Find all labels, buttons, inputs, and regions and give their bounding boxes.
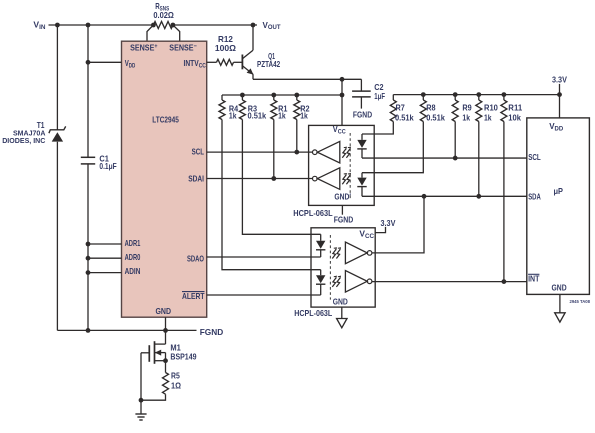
label opto U3 HCPL-063L xyxy=(294,308,332,318)
junction rail R8 xyxy=(421,92,426,97)
opto U3 LED1 xyxy=(316,234,325,257)
svg-text:VOUT: VOUT xyxy=(263,20,281,31)
junction VIN/C1 xyxy=(86,23,91,28)
svg-text:HCPL-063L: HCPL-063L xyxy=(294,308,332,318)
label LTC2945 xyxy=(152,114,179,124)
junction rail R9 xyxy=(453,92,458,97)
opto U2 squiggle1 xyxy=(342,147,350,158)
label R2 xyxy=(300,104,310,114)
resistor R11 xyxy=(501,95,507,122)
label T1 xyxy=(37,120,45,130)
resistor R8 xyxy=(420,95,426,122)
junction rail 3p3 xyxy=(557,92,562,97)
resistor R1 xyxy=(271,95,277,120)
wire SENSE- lead xyxy=(173,25,180,41)
opto U3 GND label xyxy=(333,297,348,307)
wire SDAO xyxy=(207,256,321,258)
opto U2 box xyxy=(309,125,375,205)
resistor R5 xyxy=(163,373,169,395)
svg-text:R7: R7 xyxy=(396,103,406,113)
wire R3 to opto2 anode1 xyxy=(242,120,320,235)
wire T1 branch lower xyxy=(56,142,58,331)
svg-text:R9: R9 xyxy=(462,103,472,113)
junction VDD tap xyxy=(86,60,91,65)
wire VCC column xyxy=(341,79,343,125)
junction INT/R11 xyxy=(502,279,507,284)
svg-text:VIN: VIN xyxy=(33,20,46,31)
wire 3.3V to uP VDD xyxy=(559,84,561,118)
label R11 xyxy=(508,103,522,113)
wire R11 to INT xyxy=(503,122,505,282)
opto U2 squiggle2 xyxy=(342,174,350,185)
opto U2 VCC label xyxy=(333,124,346,135)
wire ADIN xyxy=(86,270,122,275)
resistor R3 xyxy=(239,95,245,120)
ground uP xyxy=(555,313,565,322)
junction rail R11 xyxy=(502,92,507,97)
svg-text:3.3V: 3.3V xyxy=(381,218,396,228)
pin SENSE- xyxy=(169,43,197,53)
wire SENSE+ lead xyxy=(147,25,153,41)
svg-text:ADIN: ADIN xyxy=(125,266,141,276)
svg-text:SDA: SDA xyxy=(528,191,541,201)
label DIODES INC xyxy=(2,136,46,145)
value R11 10k xyxy=(508,113,521,123)
svg-text:1k: 1k xyxy=(278,111,286,121)
junction emitter/VCC column xyxy=(340,77,345,82)
wire C1 column lower xyxy=(87,164,89,331)
junction VOUT/Q1 xyxy=(251,23,256,28)
svg-text:R11: R11 xyxy=(508,103,522,113)
svg-text:ADR1: ADR1 xyxy=(125,238,141,248)
value R7 0.51k xyxy=(395,113,414,123)
uP VDD label xyxy=(549,121,564,132)
wire R1 to SDAI xyxy=(273,120,275,179)
pin ADR0 xyxy=(125,252,141,262)
wire M1 drain lead xyxy=(155,330,166,344)
wire ADR1 xyxy=(86,242,122,247)
svg-text:ADR0: ADR0 xyxy=(125,252,141,262)
transistor M1 BSP149 xyxy=(149,341,165,372)
value 0.02ohm xyxy=(153,10,174,20)
resistor R12 xyxy=(217,59,243,65)
wire R9 to SCL xyxy=(454,122,456,159)
junction SDAI/R1 xyxy=(271,176,276,181)
label opto U2 HCPL-063L xyxy=(293,208,332,218)
junction SCL/R2 xyxy=(294,150,299,155)
wire Q1 emitter rail xyxy=(253,74,361,79)
junction SDA/R10 xyxy=(476,194,481,199)
svg-text:GND: GND xyxy=(156,306,172,316)
value C2 1uF xyxy=(374,91,385,101)
wire R7 to LED1 anode xyxy=(362,122,393,135)
junction gate/gnd xyxy=(139,398,144,403)
pin SDAO xyxy=(187,254,204,264)
label R7 xyxy=(396,103,406,113)
label RSNS xyxy=(155,1,169,12)
opto U3 squiggle1 xyxy=(332,248,340,259)
diode T1 TVS xyxy=(49,126,66,141)
pin GND xyxy=(156,306,172,316)
pin ADR1 xyxy=(125,238,141,248)
label R4 xyxy=(229,104,239,114)
svg-text:LTC2945: LTC2945 xyxy=(152,114,179,124)
wire INTVCC lead xyxy=(207,61,217,63)
svg-text:VDD: VDD xyxy=(549,121,564,132)
svg-text:DIODES, INC: DIODES, INC xyxy=(2,136,46,145)
svg-text:SCL: SCL xyxy=(192,147,204,157)
value R12 100ohm xyxy=(215,43,236,53)
svg-text:1k: 1k xyxy=(300,111,308,121)
capacitor C2 xyxy=(352,79,371,108)
transistor Q1 PZTA42 xyxy=(242,25,253,75)
junction rail R1 xyxy=(271,93,276,98)
junction SDA/opto2out1 xyxy=(422,194,427,199)
label R10 xyxy=(484,103,498,113)
wire R4 to opto2 anode2 xyxy=(222,120,321,270)
svg-text:SDAO: SDAO xyxy=(187,254,204,264)
pin SCL xyxy=(192,147,204,157)
value R3 0.51k xyxy=(248,111,267,121)
svg-text:SCL: SCL xyxy=(528,152,541,162)
label R12 xyxy=(218,34,233,44)
svg-text:VCC: VCC xyxy=(359,229,374,240)
wire SCL xyxy=(207,151,313,153)
svg-text:3.3V: 3.3V xyxy=(552,75,567,85)
pin ALERT xyxy=(182,291,205,301)
uP INT label xyxy=(528,273,539,283)
opto U2 GND label xyxy=(334,192,351,202)
svg-text:GND: GND xyxy=(333,297,348,307)
junction rail R10 xyxy=(476,92,481,97)
svg-text:FGND: FGND xyxy=(353,109,372,119)
pin VDD xyxy=(125,58,136,69)
opto U2 dashed isolation xyxy=(349,133,351,198)
svg-text:0.1μF: 0.1μF xyxy=(99,161,116,171)
node 3.3V top xyxy=(552,75,567,85)
opto U2 buffer1 xyxy=(313,141,340,163)
junction VCC/pullup rail xyxy=(340,93,345,98)
value R9 1k xyxy=(462,113,470,123)
wire gnd stub xyxy=(140,400,142,414)
wire R5 to gnd xyxy=(141,394,166,400)
node VOUT label xyxy=(263,20,281,31)
svg-text:GND: GND xyxy=(552,283,567,293)
uP GND pin xyxy=(559,294,561,312)
label R5 xyxy=(171,371,180,381)
value R5 1ohm xyxy=(171,381,181,391)
junction SCLr/R9 xyxy=(453,156,458,161)
resistor R7 xyxy=(390,95,396,122)
wire M1 gate lead xyxy=(141,353,149,400)
svg-text:1Ω: 1Ω xyxy=(171,381,181,391)
junction GND/FGND rail xyxy=(163,328,168,333)
svg-text:R10: R10 xyxy=(484,103,498,113)
opto U2 LED1 xyxy=(357,134,366,158)
opto U2 buffer2 xyxy=(313,168,340,190)
svg-text:1k: 1k xyxy=(462,113,470,123)
value R4 1k xyxy=(229,111,237,121)
node VIN label xyxy=(33,20,46,31)
resistor R2 xyxy=(294,95,300,120)
svg-text:10k: 10k xyxy=(508,113,521,123)
value R2 1k xyxy=(300,111,308,121)
svg-text:0.51k: 0.51k xyxy=(248,111,267,121)
svg-text:SENSE+: SENSE+ xyxy=(130,43,158,53)
svg-text:PZTA42: PZTA42 xyxy=(257,59,280,69)
label R3 xyxy=(248,104,258,114)
opto U3 dashed isolation xyxy=(329,235,331,300)
svg-text:BSP149: BSP149 xyxy=(170,351,196,361)
opto U2 LED2 xyxy=(357,173,366,197)
resistor R9 xyxy=(452,95,458,122)
opto U3 VCC label xyxy=(359,229,374,240)
wire VDD pin xyxy=(88,61,122,63)
uP label xyxy=(554,186,564,196)
label BSP149 xyxy=(170,351,196,361)
junction rail R3 xyxy=(240,93,245,98)
resistor R4 xyxy=(219,95,225,120)
wire 3p3 rail xyxy=(393,94,559,96)
svg-text:HCPL-063L: HCPL-063L xyxy=(293,208,332,218)
wire GND pin lead xyxy=(165,317,167,330)
opto U2 FGND pin xyxy=(341,205,343,214)
wire pullup rail left xyxy=(222,94,342,96)
wire C1 column upper xyxy=(87,25,89,157)
ground opto U3 xyxy=(337,319,347,328)
op-amp U1 LTC2945 body xyxy=(122,41,207,317)
label C2 FGND xyxy=(353,109,372,119)
uP SCL label xyxy=(528,152,541,162)
value C1 0.1uF xyxy=(99,161,116,171)
wire opto2 out2 INT xyxy=(372,281,527,283)
pin SENSE+ xyxy=(130,43,158,53)
ic uP box xyxy=(527,118,590,295)
capacitor C1 xyxy=(81,157,95,164)
label R8 xyxy=(426,103,436,113)
resistor RSNS xyxy=(151,22,175,29)
opto U3 GND pin xyxy=(341,307,343,318)
label Q1 xyxy=(268,51,275,61)
ground earth symbol xyxy=(135,414,146,420)
wire R2 to SCL xyxy=(296,120,298,153)
svg-text:1k: 1k xyxy=(484,113,492,123)
svg-text:2945 TA08: 2945 TA08 xyxy=(570,299,591,305)
junction VIN/T1 xyxy=(55,23,60,28)
svg-text:1μF: 1μF xyxy=(374,91,385,101)
label C1 xyxy=(99,154,109,164)
value R1 1k xyxy=(278,111,286,121)
junction C1/FGND xyxy=(86,328,91,333)
wire opto2 out1 to SDA xyxy=(372,196,424,253)
wire T1 branch upper xyxy=(56,25,58,130)
wire SDAI xyxy=(207,178,313,180)
wire opto U3 vcc tap xyxy=(375,227,385,233)
wire SCL to uP xyxy=(362,157,527,159)
uP GND label xyxy=(552,283,567,293)
svg-text:GND′: GND′ xyxy=(334,192,351,202)
svg-text:R8: R8 xyxy=(426,103,436,113)
label PZTA42 xyxy=(257,59,280,69)
svg-text:FGND: FGND xyxy=(334,215,354,225)
wire VIN top rail xyxy=(49,24,154,26)
svg-text:R5: R5 xyxy=(171,371,180,381)
label figure tag xyxy=(570,299,591,305)
opto U3 squiggle2 xyxy=(332,276,340,287)
value R10 1k xyxy=(484,113,492,123)
label C2 xyxy=(374,82,384,92)
svg-text:100Ω: 100Ω xyxy=(215,43,236,53)
wire FGND rail xyxy=(57,329,196,331)
wire ADR0 xyxy=(86,256,122,261)
opto U3 buffer1 xyxy=(345,242,372,264)
label M1 xyxy=(170,343,181,353)
junction M1 source xyxy=(163,358,168,363)
svg-text:SDAI: SDAI xyxy=(188,173,204,183)
pin SDAI xyxy=(188,173,204,183)
label SMAJ70A xyxy=(13,128,46,137)
svg-text:0.02Ω: 0.02Ω xyxy=(153,10,174,20)
svg-text:0.51k: 0.51k xyxy=(426,113,445,123)
junction rail R2 xyxy=(294,93,299,98)
svg-text:1k: 1k xyxy=(229,111,237,121)
uP SDA label xyxy=(528,191,541,201)
value R8 0.51k xyxy=(426,113,445,123)
label opto U2 FGND xyxy=(334,215,354,225)
label FGND rail xyxy=(200,327,224,337)
wire ALERT xyxy=(207,294,321,296)
node 3.3V mid xyxy=(381,218,396,228)
opto U3 LED2 xyxy=(316,270,325,295)
svg-text:FGND: FGND xyxy=(200,327,224,337)
opto U3 buffer2 xyxy=(345,271,372,293)
resistor R10 xyxy=(476,95,482,122)
svg-text:SENSE−: SENSE− xyxy=(169,43,197,53)
wire R8 to LED2 anode xyxy=(362,122,423,173)
label R1 xyxy=(278,104,288,114)
svg-text:ALERT: ALERT xyxy=(182,291,205,301)
wire RSNS to VOUT xyxy=(173,24,257,26)
svg-text:0.51k: 0.51k xyxy=(395,113,414,123)
label R9 xyxy=(462,103,472,113)
wire R10 to SDA xyxy=(478,122,480,197)
opto U3 box xyxy=(311,228,375,307)
svg-text:INT: INT xyxy=(528,273,539,283)
pin ADIN xyxy=(125,266,141,276)
pin INTVCC xyxy=(184,58,207,69)
svg-text:μP: μP xyxy=(554,186,564,196)
wire SDA to uP xyxy=(362,195,527,197)
